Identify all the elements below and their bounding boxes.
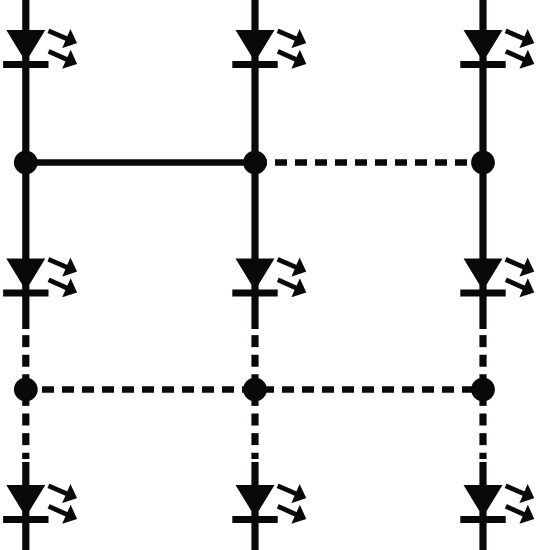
junction: row bus 1 / column 2 xyxy=(243,151,267,175)
LED D6 (row 2, column 3) xyxy=(460,250,538,302)
wire: row bus 2 dashed (column 1 to column 3) xyxy=(26,386,483,393)
LED D1 (row 1, column 1) xyxy=(3,21,81,73)
junction: row bus 2 / column 2 xyxy=(243,378,267,402)
LED D5 (row 2, column 2) xyxy=(232,250,310,302)
wire: column 1 vertical, dashed segment (D4 cathode to row bus 2) xyxy=(22,329,29,459)
LED D7 (row 3, column 1) xyxy=(3,476,81,528)
LED D3 (row 1, column 3) xyxy=(460,21,538,73)
junction: row bus 2 / column 3 xyxy=(471,378,495,402)
wire: column 1 vertical, top solid segment (through D1 and D4) xyxy=(22,0,29,329)
wire: column 2 vertical, dashed segment (D5 cathode to row bus 2) xyxy=(251,329,258,459)
LED D2 (row 1, column 2) xyxy=(232,21,310,73)
wire: column 2 vertical, top solid segment (through D2 and D5) xyxy=(251,0,258,329)
wire: column 3 vertical, bottom solid segment (through D9) xyxy=(479,462,486,550)
LED D4 (row 2, column 1) xyxy=(3,250,81,302)
LED D8 (row 3, column 2) xyxy=(232,476,310,528)
wire: column 3 vertical, dashed segment (D6 cathode to row bus 2) xyxy=(479,329,486,459)
wire: row bus 1 dashed segment (column 2 to column 3) xyxy=(255,159,483,166)
wire: column 2 vertical, bottom solid segment (through D8) xyxy=(251,462,258,550)
junction: row bus 1 / column 3 xyxy=(471,151,495,175)
wire: row bus 1 solid segment (column 1 to column 2) xyxy=(26,159,255,166)
LED D9 (row 3, column 3) xyxy=(460,476,538,528)
junction: row bus 1 / column 1 xyxy=(14,151,38,175)
wire: column 3 vertical, top solid segment (through D3 and D6) xyxy=(479,0,486,329)
junction: row bus 2 / column 1 xyxy=(14,378,38,402)
wire: column 1 vertical, bottom solid segment (through D7) xyxy=(22,462,29,550)
